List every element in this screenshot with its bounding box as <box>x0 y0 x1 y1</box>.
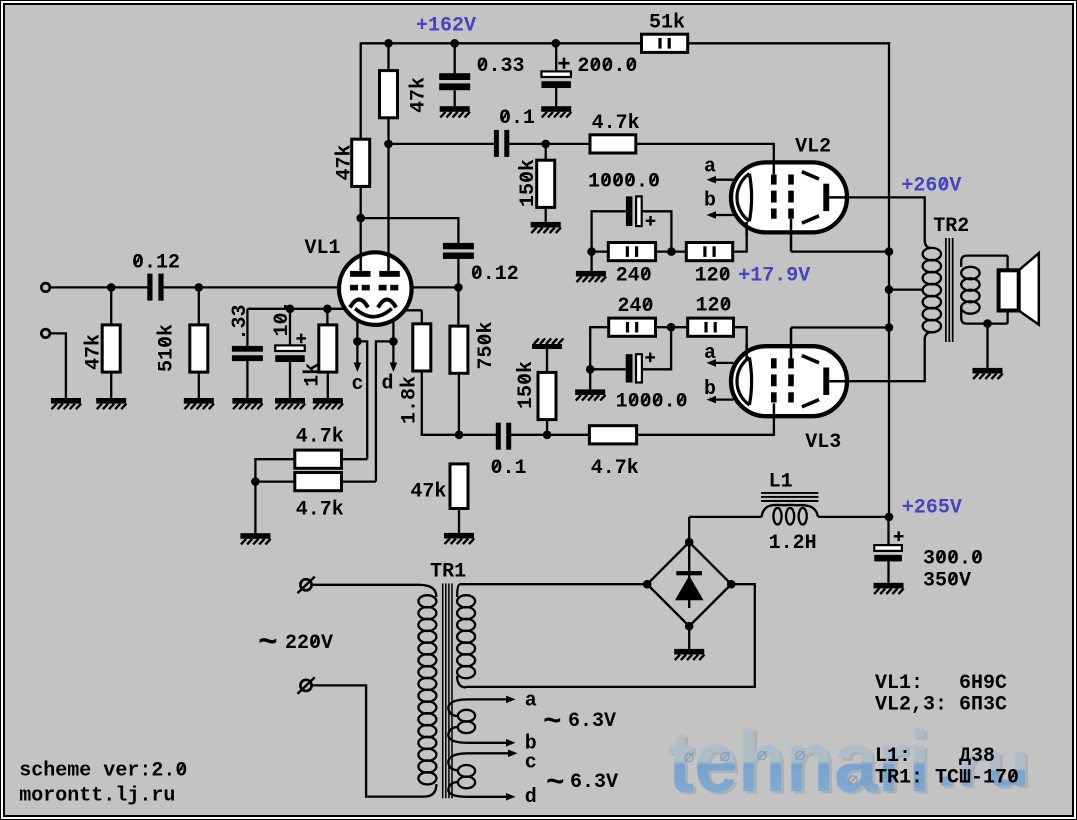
label ~220V <box>258 625 278 662</box>
ground under 240 lower <box>575 389 605 395</box>
svg-text:VL1: 6Н9С: VL1: 6Н9С <box>875 672 1007 695</box>
svg-text:1000.0: 1000.0 <box>588 171 660 194</box>
VL1 cathode arcs <box>350 300 368 308</box>
VL3 cathode arcs <box>737 357 749 405</box>
VL2 heater arrow a <box>713 179 733 181</box>
VL2 anode wire to TR2 top <box>845 197 925 242</box>
tube VL2 6P3S envelope <box>731 162 847 232</box>
wire VL1 cathode bus <box>247 308 345 310</box>
junction on rail at C 200.0 <box>552 39 561 48</box>
capacitor 0.12 input coupling <box>147 274 152 301</box>
TR1 6.3V winding c-d <box>448 753 468 770</box>
resistor 1k cathode <box>326 309 328 325</box>
svg-text:240: 240 <box>618 295 654 318</box>
heater arrow d <box>392 341 394 365</box>
mains terminal 1 <box>300 579 311 590</box>
VL2 anode lead <box>829 196 847 199</box>
ground under bridge <box>674 649 704 655</box>
inductor L1 winding <box>689 516 761 518</box>
svg-text:scheme ver:2.0: scheme ver:2.0 <box>19 760 187 783</box>
svg-text:~: ~ <box>543 705 562 740</box>
svg-text:350V: 350V <box>923 570 971 593</box>
svg-text:L1: L1 <box>769 471 793 494</box>
svg-text:+162V: +162V <box>416 15 476 38</box>
inverted ground above 150k lower <box>546 349 548 373</box>
node +265V label <box>902 497 962 520</box>
arrow c <box>468 752 511 754</box>
wire rail corner down to 47k <box>360 42 362 139</box>
resistor 4.7k lower grid stopper <box>589 426 636 444</box>
wire bridge top to L1 <box>688 517 690 542</box>
TR2 secondary bottom lead <box>967 322 1008 324</box>
wire lower 4.7k right <box>342 480 376 482</box>
svg-text:TR1: ТСШ-170: TR1: ТСШ-170 <box>875 767 1019 790</box>
wire 1.8k to lower bus <box>422 371 497 435</box>
svg-text:0.33: 0.33 <box>477 55 525 78</box>
VL2 cathode lead inside <box>745 222 748 236</box>
speaker <box>1019 253 1039 324</box>
wire right rail down from 51k to +265V node <box>888 42 890 517</box>
junction 510k <box>195 283 204 292</box>
transformer TR1 label <box>430 561 466 584</box>
resistor 47k (VL1 left anode load) <box>352 139 370 186</box>
junction lower bus / 47k <box>455 431 464 440</box>
VL2 anode plate <box>823 184 829 211</box>
transformer TR2 label <box>933 215 969 238</box>
VL3 grid 2 dashes <box>788 358 794 368</box>
svg-text:b: b <box>704 378 716 401</box>
VL2 grid 1 dashes <box>771 175 777 185</box>
svg-text:47k: 47k <box>408 77 431 113</box>
input terminal 1 <box>41 283 50 292</box>
svg-text:.33: .33 <box>229 304 252 340</box>
svg-text:VL2,3: 6П3С: VL2,3: 6П3С <box>875 694 1007 717</box>
svg-text:150k: 150k <box>517 159 540 207</box>
mains terminal 2 <box>300 680 311 691</box>
ground under 1k <box>313 398 343 404</box>
wire cathode left to 4.7k pair <box>357 341 367 459</box>
TR1 HV secondary winding <box>457 595 475 607</box>
resistor 150k lower grid leak <box>546 420 548 435</box>
TR1 core <box>442 583 444 798</box>
svg-text:VL2: VL2 <box>795 135 831 158</box>
wire 47k down to VL1 right anode <box>387 118 389 257</box>
resistor 47k input <box>110 287 112 325</box>
TR1 6.3V winding a-b <box>448 699 468 716</box>
resistor 510k grid leak <box>198 287 200 325</box>
junction on rail at C 0.33 <box>450 39 459 48</box>
junction +265V <box>885 513 894 522</box>
input terminal 2 <box>41 329 50 338</box>
resistor 1.8k <box>404 309 421 311</box>
TR2 secondary top lead <box>967 254 1008 256</box>
svg-text:VL3: VL3 <box>805 431 841 454</box>
VL3 grid2 lead up <box>790 328 793 359</box>
junction grid2 node <box>454 283 463 292</box>
svg-text:240: 240 <box>616 265 652 288</box>
polarity + 1000.0 lower <box>645 356 655 358</box>
svg-text:4.7k: 4.7k <box>296 426 344 449</box>
VL3 anode plate <box>823 368 829 395</box>
wire VL1 right anode to 0.1 cap <box>389 143 495 145</box>
VL3 screen wire to rail <box>791 326 889 328</box>
svg-text:47k: 47k <box>334 144 357 180</box>
VL1 left anode lead inside <box>359 255 362 271</box>
wire cathode right to 4.7k pair <box>376 341 394 481</box>
ground under 0.33 <box>440 106 470 112</box>
wire terminal 2 to ground <box>50 333 66 398</box>
VL3 anode wire to TR2 bottom <box>845 338 925 381</box>
capacitor .33 cathode <box>246 309 248 346</box>
wire to coupling cap 0.12 <box>361 218 459 243</box>
svg-text:TR2: TR2 <box>933 215 969 238</box>
svg-text:VL1: VL1 <box>305 237 341 260</box>
VL1 heater pin left <box>356 319 358 341</box>
wire rail down to 47k <box>387 43 389 70</box>
svg-text:4.7k: 4.7k <box>592 112 640 135</box>
ground under speaker <box>973 368 1003 374</box>
svg-text:6.3V: 6.3V <box>570 771 618 794</box>
table tube types <box>875 672 1007 695</box>
svg-text:220V: 220V <box>285 632 333 655</box>
svg-text:0.1: 0.1 <box>499 107 535 130</box>
VL1 right anode lead inside <box>387 254 390 271</box>
svg-text:120: 120 <box>696 295 732 318</box>
resistor 4.7k upper of pair <box>295 450 342 468</box>
VL1 anode plates <box>350 271 371 277</box>
ground under 47k input <box>96 398 126 404</box>
bridge diode symbol <box>688 545 690 608</box>
wire 4.7k to VL2 grid <box>636 144 774 164</box>
wires 1000.0 lower <box>590 368 626 370</box>
junction 1k <box>323 305 332 314</box>
wire mains 1 to TR1 <box>312 584 419 586</box>
wire bridge bottom to ground <box>688 626 690 649</box>
VL1 grid dashes <box>350 285 358 291</box>
wire bridge right to TR1 HV return <box>466 584 755 687</box>
svg-text:+260V: +260V <box>901 175 961 198</box>
wire 120 to VL3 cathode <box>734 327 747 355</box>
svg-text:a: a <box>704 155 716 178</box>
svg-text:c: c <box>525 751 537 774</box>
ground under 150k <box>545 207 547 222</box>
svg-text:c: c <box>352 373 364 396</box>
svg-text:0.12: 0.12 <box>471 263 519 286</box>
resistor 4.7k lower of pair <box>295 473 342 491</box>
VL2 grid1 lead inside <box>773 164 776 174</box>
capacitor 10. electrolytic cathode <box>289 309 291 346</box>
svg-text:a: a <box>704 342 716 365</box>
table L1 TR1 types <box>875 745 995 768</box>
node +260V label <box>901 175 961 198</box>
bridge vertex dots <box>685 538 694 547</box>
junction 10uF <box>286 305 295 314</box>
resistor 240 upper <box>592 250 609 252</box>
junction on rail at 47k R2 <box>384 39 393 48</box>
node +17.9V label <box>738 265 810 288</box>
junction anode / 0.1 coupling <box>384 140 393 149</box>
TR2 core <box>945 238 947 342</box>
TR1 primary winding <box>419 585 436 597</box>
VL2 grid 2 dashes <box>788 175 794 185</box>
ground under 300.0 <box>874 583 904 589</box>
VL3 grid1 lead inside (down) <box>773 403 776 414</box>
node +162V label <box>416 15 476 38</box>
wire 0.1 to 150k junction <box>511 434 590 436</box>
wires 1000.0 upper <box>592 211 626 251</box>
svg-text:6.3V: 6.3V <box>568 710 616 733</box>
VL3 grid 1 dashes <box>771 358 777 368</box>
resistor 51k (series in rail) <box>642 34 688 52</box>
ground input terminal 2 <box>51 398 81 404</box>
svg-text:+17.9V: +17.9V <box>738 265 810 288</box>
resistor 150k (VL2 grid leak) <box>545 144 547 160</box>
label ~6.3V upper <box>543 705 562 740</box>
junction 47k input <box>107 283 116 292</box>
svg-text:0.1: 0.1 <box>491 457 527 480</box>
wire +162V rail <box>361 42 642 44</box>
svg-text:200.0: 200.0 <box>577 55 637 78</box>
wire 0.12 to VL1 grid <box>164 286 340 288</box>
capacitor 0.1 (lower coupling) <box>496 423 501 450</box>
bridge rectifier diamond <box>647 542 731 626</box>
VL2 beam plates <box>802 172 819 179</box>
arrow a <box>468 698 509 700</box>
VL1 heater pin right <box>392 318 394 341</box>
VL2 cathode arcs <box>737 174 749 222</box>
resistor 750k <box>450 326 468 373</box>
VL1 grid wire right to 0.12 <box>412 286 459 288</box>
resistor 47k lower <box>450 464 468 509</box>
inductor L1 core <box>761 492 818 494</box>
arrow d <box>468 796 509 798</box>
VL2 screen wire to rail <box>791 250 889 252</box>
resistor 47k (VL1 right anode load) <box>380 71 398 118</box>
wire 0.12 down to grid node <box>457 259 459 326</box>
label ~6.3V lower <box>546 766 565 801</box>
svg-text:300.0: 300.0 <box>923 548 983 571</box>
svg-text:1k: 1k <box>302 363 325 387</box>
VL2 heater arrow b <box>713 214 733 216</box>
resistor 120 lower <box>688 318 734 336</box>
VL1 heater arc <box>355 309 392 317</box>
heater arrow c <box>356 341 358 365</box>
wire pair left junction <box>255 459 294 481</box>
wire upper 4.7k right <box>342 458 368 460</box>
VL3 heater arrow a <box>713 362 733 364</box>
capacitor 0.1 (upper coupling) <box>494 130 499 157</box>
capacitor 200.0 electrolytic <box>555 43 557 71</box>
capacitor 0.33 <box>454 43 456 73</box>
capacitor 300.0 / 350V <box>887 517 889 545</box>
svg-text:1.8k: 1.8k <box>399 376 422 424</box>
resistor 4.7k (VL2 grid stopper) <box>590 135 636 153</box>
wire 4.7k to VL3 grid <box>637 414 774 435</box>
svg-text:150k: 150k <box>515 361 538 409</box>
tube VL1 6N9S envelope <box>339 252 412 325</box>
TR2 secondary winding <box>961 256 967 267</box>
svg-text:b: b <box>704 190 716 213</box>
VL2 grid2 lead down <box>790 219 793 252</box>
ground under 240 upper <box>590 252 592 271</box>
capacitor 1000.0 electrolytic lower <box>626 354 633 382</box>
wire input to 0.12 <box>50 286 147 288</box>
VL3 heater arrow b <box>713 398 733 400</box>
capacitor 1000.0 electrolytic upper <box>588 171 660 194</box>
svg-text:51k: 51k <box>649 12 685 35</box>
svg-text:d: d <box>525 786 537 809</box>
ground under 510k <box>184 398 214 404</box>
ground under 10. <box>275 398 305 404</box>
junction 150k lower <box>543 431 552 440</box>
wire 47k to VL1 left anode <box>360 186 362 257</box>
svg-text:47k: 47k <box>410 481 446 504</box>
TR2 center tap wire <box>889 288 923 290</box>
junction 240/120 upper <box>656 250 687 252</box>
ground under 4.7k pair <box>240 533 270 539</box>
svg-text:~: ~ <box>258 625 278 662</box>
svg-text:morontt.lj.ru: morontt.lj.ru <box>19 785 175 808</box>
inductor L1 label <box>769 471 793 494</box>
wires 240 lower left <box>590 327 609 389</box>
svg-text:1.2H: 1.2H <box>769 532 817 555</box>
svg-text:a: a <box>525 689 537 712</box>
svg-text:120: 120 <box>695 265 731 288</box>
svg-text:4.7k: 4.7k <box>591 457 639 480</box>
ground under 200.0 <box>541 106 571 112</box>
junction speaker ground <box>983 319 992 328</box>
wire 750k to lower bus <box>458 373 460 435</box>
VL3 anode lead <box>829 380 847 383</box>
VL3 cathode lead inside <box>745 344 748 359</box>
text morontt.lj.ru <box>19 785 175 808</box>
ground under 47k lower <box>444 533 474 539</box>
arrow b <box>468 742 509 744</box>
polarity + of 10. <box>296 337 306 339</box>
resistor 120 upper <box>686 243 732 261</box>
wire bridge left to TR1 HV <box>460 583 648 585</box>
text scheme version <box>19 760 187 783</box>
svg-text:1000.0: 1000.0 <box>616 391 688 414</box>
wire 0.1 to 150k/4.7k junction <box>509 143 590 145</box>
svg-text:L1: Д38: L1: Д38 <box>875 745 995 768</box>
svg-text:4.7k: 4.7k <box>296 499 344 522</box>
junction anode / 0.12 coupling <box>356 214 365 223</box>
wire 120 to VL2 cathode <box>733 225 747 252</box>
svg-text:0.12: 0.12 <box>132 252 180 275</box>
polarity + 1000.0 upper <box>646 220 656 222</box>
svg-text:510k: 510k <box>156 324 179 372</box>
resistor 240 lower <box>609 318 656 336</box>
wire mains 2 to TR1 bottom <box>312 685 419 796</box>
capacitor 0.12 (VL1 stage coupling) <box>443 243 474 249</box>
svg-text:d: d <box>382 373 394 396</box>
svg-text:+265V: +265V <box>902 497 962 520</box>
svg-text:750k: 750k <box>475 321 498 369</box>
ground under .33 <box>232 398 262 404</box>
VL3 beam plates <box>802 356 819 363</box>
tube VL3 6P3S envelope <box>731 346 847 416</box>
svg-text:TR1: TR1 <box>430 561 466 584</box>
svg-text:47k: 47k <box>83 334 106 370</box>
junction 150k grid leak <box>541 140 550 149</box>
junction 240/120 lower <box>656 326 688 328</box>
polarity + of 200.0 <box>558 62 569 65</box>
TR2 primary winding <box>925 240 932 248</box>
svg-text:~: ~ <box>546 766 565 801</box>
svg-text:10.: 10. <box>271 300 294 336</box>
